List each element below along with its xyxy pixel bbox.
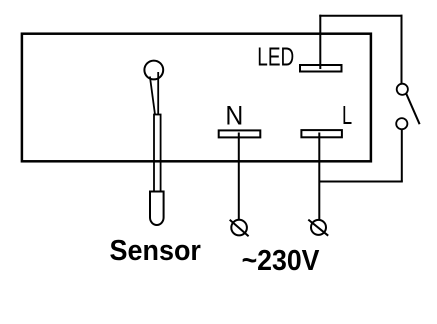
wire top horizontal: [319, 15, 402, 17]
wire branch switch to L: [319, 181, 403, 183]
mains terminal N crossed circle: [230, 220, 249, 236]
svg-text:~230V: ~230V: [242, 244, 320, 276]
wire switch lower: [401, 129, 403, 181]
svg-text:L: L: [342, 101, 352, 130]
switch S1 lower contact: [396, 118, 407, 129]
wire N down: [238, 133, 240, 220]
svg-text:N: N: [225, 101, 243, 130]
switch S1 upper contact: [397, 84, 408, 95]
sensor bulb: [144, 61, 163, 80]
sensor stem: [154, 115, 161, 193]
enclosure box: [22, 34, 371, 162]
sensor lead left: [150, 77, 155, 115]
wire L down: [318, 133, 320, 220]
svg-text:LED: LED: [257, 42, 294, 72]
sensor lead right: [157, 72, 159, 115]
LED terminal: [300, 65, 342, 72]
terminal L: [301, 130, 342, 137]
mains terminal L crossed circle: [308, 220, 328, 236]
wire LED terminal to top: [319, 15, 321, 69]
switch S1 blade: [406, 94, 419, 124]
terminal N: [219, 130, 261, 137]
svg-text:Sensor: Sensor: [110, 234, 202, 266]
sensor tip: [150, 192, 164, 226]
wire switch upper: [401, 15, 403, 84]
